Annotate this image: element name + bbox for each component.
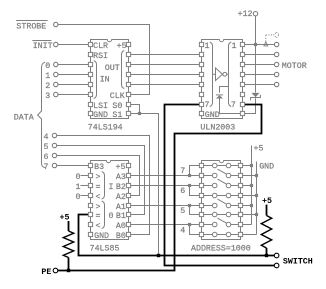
svg-text:7: 7 — [180, 167, 185, 176]
svg-text:0: 0 — [109, 212, 114, 221]
svg-text:6: 6 — [180, 187, 185, 196]
wire OUT4 to ULN2003 input 5 — [130, 84, 200, 86]
DIP right-side wires to +5/GND rails — [242, 165, 252, 167]
svg-text:4: 4 — [180, 227, 185, 236]
shift register U1 74LS194 body — [91, 40, 129, 119]
wire STROBE to CLK — [58, 25, 150, 95]
terminals SWITCH — [274, 253, 279, 258]
svg-text:74LS85: 74LS85 — [90, 244, 120, 253]
wire DATA2 to IN3 — [58, 84, 88, 86]
ULN2003 input group brace — [210, 42, 213, 107]
wire A3 to DIP bit7 — [130, 175, 190, 177]
terminals DATA4-7 — [52, 133, 56, 137]
darlington array U2 ULN2003 body — [202, 40, 243, 119]
svg-text:=: = — [96, 183, 101, 192]
svg-text:A1: A1 — [116, 203, 126, 212]
logic level stubs 0,1,0 — [81, 175, 89, 177]
svg-text:<: < — [96, 193, 101, 202]
node +12/motor junction — [254, 43, 257, 46]
wire ULN COM pin to zener — [244, 98, 256, 113]
74LS85 O group brace — [102, 201, 105, 229]
terminal INIT — [54, 42, 58, 46]
svg-text:74LS194: 74LS194 — [88, 124, 123, 133]
resistor R2 (+5 pullup switch) — [266, 205, 268, 216]
svg-text:B3: B3 — [94, 163, 104, 172]
DIP switch pins — [199, 163, 203, 167]
svg-text:OUT: OUT — [105, 64, 120, 73]
terminals DATA0-3 — [54, 62, 58, 66]
svg-text:6: 6 — [44, 153, 49, 162]
DIP switch contacts — [204, 165, 213, 167]
svg-text:GND: GND — [94, 232, 109, 241]
svg-text:RSI: RSI — [93, 52, 108, 61]
rail GND — [256, 162, 258, 235]
svg-text:PE: PE — [41, 268, 51, 277]
terminal +12 — [253, 12, 257, 16]
wire A1 to DIP bit5 — [130, 205, 190, 207]
svg-text:INIT: INIT — [33, 42, 53, 51]
wire DATA5 to B1 — [57, 146, 145, 215]
terminal STROBE — [54, 22, 58, 26]
wire DATA7 to B3 — [57, 165, 88, 167]
svg-text:SWITCH: SWITCH — [283, 257, 313, 266]
svg-text:GND: GND — [93, 111, 108, 120]
svg-text:GND: GND — [259, 162, 274, 171]
svg-text:<: < — [96, 222, 101, 231]
svg-text:+5: +5 — [262, 197, 272, 206]
svg-text:ULN2003: ULN2003 — [200, 124, 235, 133]
wire A0 to DIP bit4 — [130, 224, 190, 226]
wire INIT to CLR — [58, 44, 88, 46]
svg-text:2: 2 — [45, 82, 50, 91]
svg-text:MOTOR: MOTOR — [282, 62, 307, 71]
ULN2003 internal clamp diode — [220, 87, 229, 93]
wire DATA6 to A2 — [57, 156, 140, 196]
rail +5 — [251, 146, 253, 225]
74LS194 OUT group brace — [122, 51, 125, 89]
svg-text:+5: +5 — [254, 144, 264, 153]
svg-text:A3: A3 — [116, 173, 126, 182]
74LS194 pins — [88, 42, 92, 46]
svg-text:3: 3 — [45, 92, 50, 101]
svg-text:+5: +5 — [116, 163, 126, 172]
svg-text:5: 5 — [44, 143, 49, 152]
svg-text:B1: B1 — [116, 212, 126, 221]
svg-text:A2: A2 — [116, 193, 126, 202]
comparator U3 74LS85 body — [91, 161, 129, 240]
svg-text:1: 1 — [205, 42, 210, 51]
wire B2 to DIP bit6 — [130, 185, 190, 187]
svg-text:LSI: LSI — [93, 102, 108, 111]
svg-text:7: 7 — [205, 101, 210, 110]
svg-text:S0: S0 — [112, 102, 122, 111]
DIP switch S1 ADDRESS block body — [202, 161, 241, 240]
terminal PE — [53, 268, 58, 273]
black net: comparator = output to S1/pullup/SWITCH — [79, 215, 275, 256]
74LS85 pins — [88, 163, 92, 167]
node pullup/switch junction — [265, 254, 268, 257]
ULN2003 inverter symbol — [216, 68, 223, 81]
svg-text:=: = — [96, 212, 101, 221]
node S1/equals junction — [157, 254, 160, 257]
svg-text:GND: GND — [205, 111, 220, 120]
svg-text:1: 1 — [232, 42, 237, 51]
svg-text:STROBE: STROBE — [16, 22, 46, 31]
74LS194 IN group brace — [94, 61, 97, 99]
svg-text:>: > — [96, 173, 101, 182]
wire OUT2 to ULN2003 input 3 — [130, 64, 200, 66]
wire OUT1 to ULN2003 input 2 — [130, 54, 200, 56]
svg-text:1: 1 — [45, 72, 50, 81]
wire S0 to S1 node — [130, 105, 140, 114]
node S0/S1 junction — [138, 112, 141, 115]
svg-text:1: 1 — [76, 183, 81, 192]
resistor R1 (+5 pullup PE) — [68, 221, 70, 231]
svg-text:+5: +5 — [60, 213, 70, 222]
svg-text:0: 0 — [45, 62, 50, 71]
zener diode D1 — [251, 93, 259, 97]
svg-text:B2: B2 — [116, 183, 126, 192]
svg-text:0: 0 — [76, 193, 81, 202]
svg-text:B0: B0 — [116, 232, 126, 241]
svg-text:+12: +12 — [238, 10, 253, 19]
svg-text:+5: +5 — [117, 42, 127, 51]
svg-text:4: 4 — [44, 133, 49, 142]
wire DATA0 to IN1 — [58, 64, 88, 66]
svg-text:I: I — [109, 183, 114, 192]
svg-text:S1: S1 — [112, 111, 122, 120]
svg-text:ADDRESS=1000: ADDRESS=1000 — [191, 244, 251, 253]
wire DATA3 to IN4 — [58, 94, 88, 96]
svg-text:7: 7 — [44, 163, 49, 172]
+12 supply line — [255, 16, 257, 93]
svg-text:5: 5 — [180, 207, 185, 216]
ULN2003 output group brace — [229, 42, 232, 107]
black net: ULN output7 to PE — [58, 105, 262, 271]
svg-text:CLR: CLR — [93, 42, 108, 51]
svg-text:IN: IN — [100, 75, 110, 84]
dashed probe annotation with diamond — [264, 42, 268, 46]
wire OUT3 to ULN2003 input 4 — [130, 74, 200, 76]
terminals MOTOR — [274, 42, 278, 46]
svg-text:DATA: DATA — [14, 113, 34, 122]
74LS85 I group brace — [102, 172, 105, 200]
wire DATA1 to IN2 — [58, 74, 88, 76]
svg-text:CLK: CLK — [110, 92, 125, 101]
black net: ULN input7 to switch — [165, 105, 275, 266]
svg-text:7: 7 — [231, 101, 236, 110]
motor output wires — [244, 44, 274, 46]
node PE/pullup junction — [67, 269, 70, 272]
svg-text:>: > — [96, 203, 101, 212]
svg-text:0: 0 — [76, 173, 81, 182]
DATA bus brace — [38, 62, 46, 168]
wire S1 down to equals-output net — [130, 114, 159, 256]
wire DATA4 to B0 — [57, 136, 150, 235]
ULN2003 pins — [199, 42, 203, 46]
svg-text:A0: A0 — [116, 222, 126, 231]
